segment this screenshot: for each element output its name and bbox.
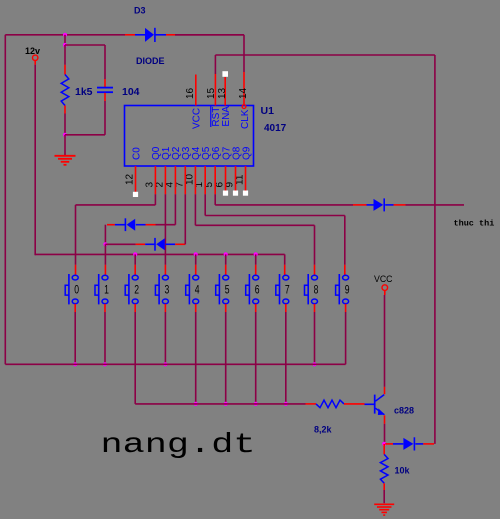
- svg-text:13: 13: [217, 87, 228, 99]
- svg-text:DIODE: DIODE: [136, 56, 165, 66]
- svg-text:0: 0: [74, 285, 79, 297]
- svg-text:15: 15: [206, 87, 217, 99]
- svg-text:U1: U1: [261, 105, 275, 117]
- svg-text:16: 16: [185, 87, 196, 99]
- svg-text:C0: C0: [131, 147, 142, 160]
- svg-text:4: 4: [195, 285, 200, 297]
- svg-text:12v: 12v: [25, 46, 40, 56]
- svg-text:1: 1: [104, 285, 109, 297]
- svg-text:6: 6: [255, 285, 260, 297]
- svg-text:10k: 10k: [395, 466, 411, 476]
- svg-text:ENA: ENA: [221, 106, 232, 127]
- svg-text:thuc thi: thuc thi: [454, 218, 495, 228]
- svg-text:3: 3: [165, 285, 170, 297]
- svg-text:12: 12: [125, 173, 136, 185]
- svg-text:Q9: Q9: [241, 146, 252, 160]
- svg-text:2: 2: [134, 285, 139, 297]
- svg-text:1k5: 1k5: [75, 86, 93, 98]
- svg-text:CLK: CLK: [240, 109, 251, 129]
- svg-text:VCC: VCC: [374, 274, 392, 284]
- svg-text:7: 7: [285, 285, 290, 297]
- svg-text:104: 104: [122, 86, 140, 98]
- svg-text:5: 5: [225, 285, 230, 297]
- svg-text:nang.dt: nang.dt: [101, 430, 256, 461]
- svg-text:8,2k: 8,2k: [314, 425, 333, 435]
- svg-text:14: 14: [238, 87, 249, 99]
- svg-text:D3: D3: [134, 6, 146, 16]
- svg-text:VCC: VCC: [192, 108, 203, 129]
- svg-text:8: 8: [314, 285, 319, 297]
- svg-text:4017: 4017: [264, 123, 287, 134]
- svg-text:9: 9: [345, 285, 350, 297]
- svg-text:c828: c828: [394, 405, 414, 415]
